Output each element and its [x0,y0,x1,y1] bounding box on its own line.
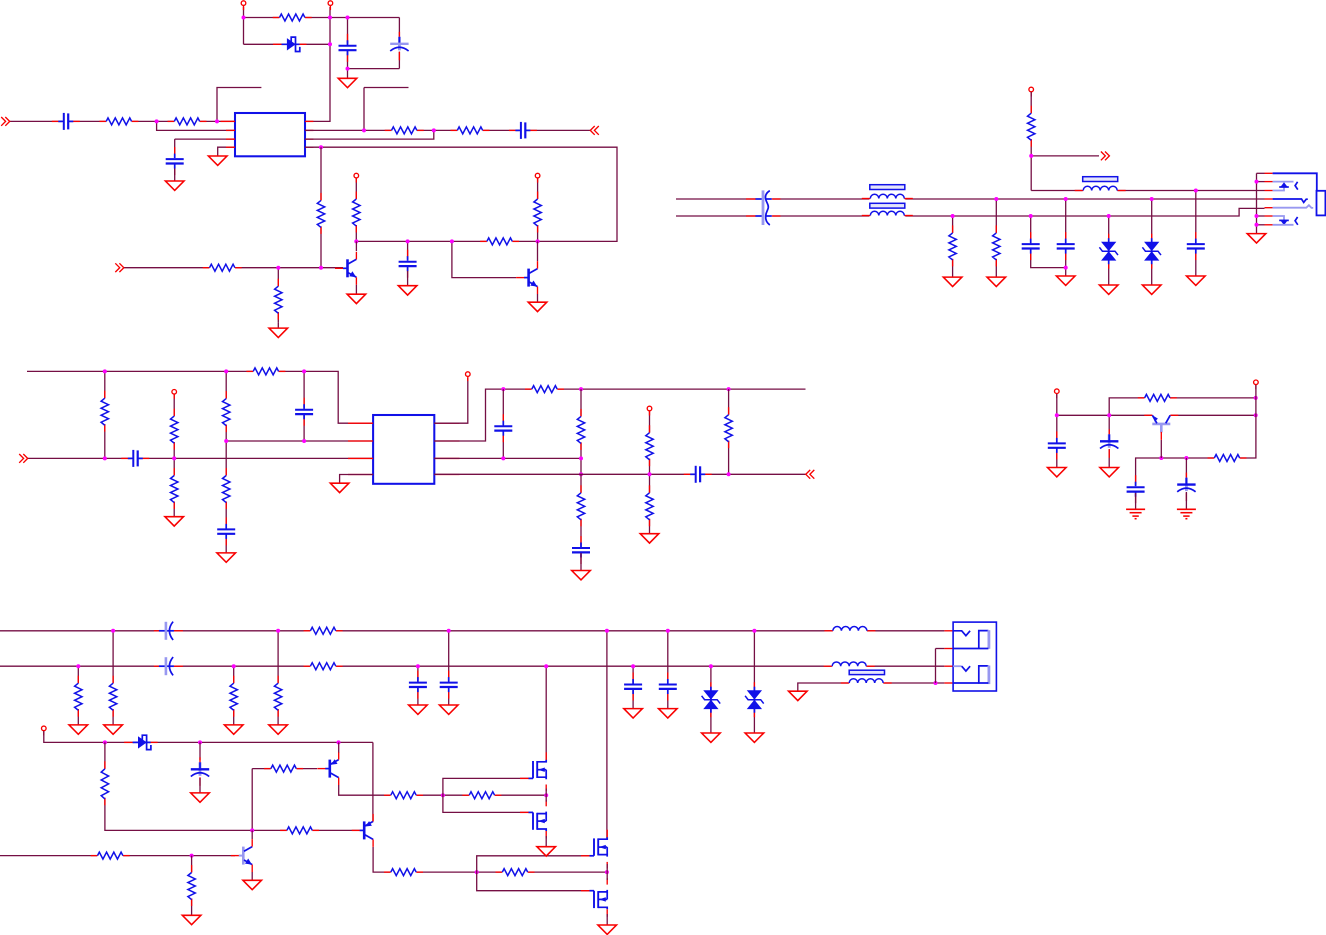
junction [1064,197,1068,201]
wire [364,87,409,89]
terminal P6 [172,390,177,399]
junction [337,740,341,744]
wire (top bus) [0,630,944,632]
wire [157,121,235,130]
junction [346,16,350,20]
wire [935,649,937,684]
wire [373,847,607,872]
resistor R24 [644,425,655,466]
transistor Q3 (PNP) [1144,415,1178,440]
wire [545,666,547,761]
wire (inductor row) [1031,190,1264,192]
wire [1065,199,1067,276]
junction [362,128,366,132]
wire [112,631,114,725]
inductor [862,185,913,200]
junction [1107,214,1111,218]
resistor R26 [723,407,734,448]
capacitor C20 (polarized) [154,621,183,641]
wire [1171,414,1256,416]
wire [649,474,651,533]
junction [1150,197,1154,201]
capacitor C26 (polarized) [190,757,210,786]
wire [355,241,357,251]
resistor R6 [316,193,327,234]
wire [303,371,305,441]
wire [355,178,357,241]
wire [355,285,357,294]
terminal P7 [466,372,471,381]
junction [450,239,454,243]
wire [1257,224,1265,226]
junction [276,629,280,633]
junction [579,456,583,460]
resistor R1 [273,12,312,22]
wire [606,631,608,839]
wire (jack ground chain) [1256,173,1258,233]
junction [319,266,323,270]
wire [407,271,409,286]
wire [252,829,360,831]
wire [1257,181,1265,183]
junction [302,369,306,373]
MOSFET M2 [520,800,546,839]
wire [606,872,608,880]
ground [572,571,591,580]
TVS diode D2 [1099,234,1118,269]
wire [243,7,245,44]
resistor R42 [91,850,130,860]
wire [452,241,516,277]
resistor R16 [99,391,110,432]
resistor R18 [169,468,180,509]
wire [105,742,252,830]
junction [951,214,955,218]
wire [1108,415,1110,467]
wire [305,147,617,241]
junction [406,239,410,243]
wire [606,914,608,925]
ground [659,709,678,718]
wire [1257,215,1265,217]
ground [217,553,236,562]
port OUT2 [1101,152,1110,161]
transistor Q1 [335,252,356,285]
junction [1255,180,1259,184]
TVS diode D5 [745,682,764,717]
terminal P10 [1254,380,1259,389]
ground [702,733,721,742]
wire [1108,216,1110,285]
junction [544,793,548,797]
TVS diode D3 [1142,234,1161,269]
junction [346,67,350,71]
wire [434,457,581,459]
wire [1185,458,1187,477]
ground [624,709,643,718]
wire [277,631,279,725]
inductor [841,678,892,685]
ground [338,69,357,88]
wire [244,43,331,45]
terminal P2 [328,1,333,10]
resistor R5 [451,125,490,135]
MOSFET M4 [581,878,607,917]
wire [252,768,317,770]
resistor R20 [221,468,232,509]
junction [1064,266,1068,270]
wire [251,830,253,839]
terminal P4 [535,173,540,182]
ground [208,156,227,165]
wire [1135,493,1137,509]
junction [752,629,756,633]
diode D1 [273,37,307,51]
transistor Q6 [231,839,252,872]
ground [1056,276,1075,285]
resistor R3 [168,116,207,126]
capacitor C12 [294,398,314,426]
ground [69,725,88,734]
transistor Q2 [516,261,537,294]
junction [76,664,80,668]
ground [347,294,366,303]
resistor R32 [108,676,119,717]
wire [233,666,235,725]
junction [605,629,609,633]
capacitor C22 [408,671,428,699]
diode D6 [124,735,158,749]
junction [631,664,635,668]
inductor [824,661,875,668]
TVS diode D4 [702,682,721,717]
capacitor C17 (polarized) [1099,429,1119,458]
junction [416,664,420,668]
junction [224,439,228,443]
wire (output line) [434,473,805,475]
junction [1194,189,1198,193]
jack J2 body [1273,173,1326,225]
terminal P3 [354,173,359,182]
wire [199,742,201,760]
wire [1056,394,1058,415]
wire [434,378,468,423]
wire [443,778,530,812]
wire [244,17,331,19]
wire [10,120,235,122]
ground [182,915,201,924]
resistor R19 [221,391,232,432]
capacitor C11 [216,517,236,545]
resistor R38 [462,790,501,800]
wire [1109,398,1256,415]
resistor R43 [186,865,197,906]
wire [1031,155,1099,157]
terminal P9 [1055,389,1060,398]
MOSFET M3 [581,830,607,869]
wire [710,666,712,733]
terminal P8 [647,406,652,415]
junction [155,119,159,123]
wire [305,7,330,121]
resistor R29 [304,626,343,636]
wire [537,294,539,302]
junction [536,239,540,243]
capacitor C19 (polarized) [1176,473,1196,502]
wire (top right rail) [503,388,805,390]
wire [537,241,539,261]
wire [728,389,730,474]
inductor L1 [1075,177,1126,192]
capacitor C23 [439,671,459,699]
wire [44,731,373,742]
capacitor C9 [1186,232,1206,260]
junction [328,42,332,46]
transistor Q4 (PNP) [317,752,338,785]
junction [190,854,194,858]
ground [789,691,808,700]
capacitor C3 [52,111,80,131]
ground [191,793,210,802]
wire [1185,492,1187,509]
resistor R21 [525,384,564,394]
wire [251,769,253,831]
inductor [862,203,913,217]
junction [605,870,609,874]
capacitor C24 [623,673,643,701]
junction [103,740,107,744]
junction [319,145,323,149]
resistor R7 [351,192,362,233]
wire [1136,458,1187,486]
resistor R33 [228,676,239,717]
wire [218,147,235,156]
wire [0,855,235,857]
resistor R27 [1138,393,1177,403]
junction [1055,413,1059,417]
inline jack break J1 [746,186,781,229]
capacitor C14 [571,536,591,564]
wire [477,856,590,891]
port OUT1 [590,126,599,135]
wire [217,88,261,122]
ground [537,847,556,856]
junction [1255,223,1259,227]
ground [1247,234,1266,243]
junction [727,472,731,476]
junction [1107,413,1111,417]
wire [448,631,450,705]
junction [1255,214,1259,218]
wire [545,795,547,802]
ground [269,725,288,734]
wire (input line) [28,457,373,459]
junction [111,629,115,633]
wire [580,474,582,547]
ground [1099,285,1118,294]
wire [1057,414,1153,416]
resistor R36 [264,763,303,773]
wire [537,176,539,242]
wire [502,389,504,458]
wire [434,389,503,441]
port IN1 [1,117,10,126]
inductor L2 [824,625,875,632]
resistor R40 [384,867,423,877]
ground [1142,285,1161,294]
wire [1031,216,1066,268]
resistor R25 [644,485,655,526]
junction [934,681,938,685]
ground [165,181,184,190]
wire [606,864,608,872]
ground [745,733,764,742]
wire [936,648,945,650]
terminal P5 [1029,87,1034,96]
junction [215,119,219,123]
junction [544,664,548,668]
wire (bottom bus) [676,208,1265,216]
ground [640,534,659,543]
wire [580,389,582,474]
MOSFET M1 [520,752,546,791]
resistor R10 [203,263,242,273]
junction [1029,154,1033,158]
ground [1187,276,1206,285]
wire [305,129,590,131]
junction [242,16,246,20]
ground [598,925,617,934]
junction [250,828,254,832]
wire [995,199,997,277]
ground [1100,468,1119,477]
junction [475,870,479,874]
resistor R41 [496,867,535,877]
resistor R12 [1026,106,1037,147]
wire [417,666,419,705]
wire [1030,92,1032,191]
ground [330,483,349,492]
wire [348,68,400,70]
ground [165,517,184,526]
terminal P1 [241,1,246,10]
ground [398,286,417,295]
ground [943,277,962,286]
junction [727,387,731,391]
wire [199,778,201,793]
capacitor C13 [493,414,513,442]
wire [632,666,634,708]
wire [1160,440,1162,458]
wire [1186,385,1256,458]
resistor R23 [576,485,587,526]
earth ground [1177,509,1196,518]
junction [232,664,236,668]
wire [330,17,399,19]
resistor R31 [73,676,84,717]
wire [104,371,106,458]
junction [666,629,670,633]
wire [363,88,365,131]
resistor R9 [532,192,543,233]
capacitor C21 (polarized) [154,656,183,676]
capacitor C25 [658,673,678,701]
wire [175,138,235,140]
wire [1056,415,1058,467]
resistor R30 [304,661,343,671]
wire [174,139,176,154]
capacitor C16 [1047,431,1067,459]
junction [432,128,436,132]
wire (bottom bus) [0,665,944,667]
junction [198,740,202,744]
wire [340,475,374,484]
junction [1184,456,1188,460]
wire [339,785,547,795]
junction [1029,214,1033,218]
terminal P11 [42,726,47,735]
wire [407,241,409,257]
junction [994,197,998,201]
wire [338,742,340,752]
ground [269,322,288,337]
wire [77,666,79,725]
wire [251,872,253,880]
wire (shield line) [798,683,945,691]
ground [987,277,1006,286]
junction [648,472,652,476]
wire [952,216,954,277]
ground [104,725,123,734]
resistor R28 [1208,453,1247,463]
capacitor C8 [1056,232,1076,260]
wire [173,458,175,516]
junction [709,664,713,668]
junction [501,387,505,391]
junction [1254,396,1258,400]
junction [172,456,176,460]
wire [305,130,434,139]
junction [302,439,306,443]
wire [1195,191,1197,277]
wire [580,553,582,571]
capacitor C7 [1021,232,1041,260]
junction [1254,413,1258,417]
wire [277,268,279,322]
resistor R17 [169,409,180,450]
wire [173,394,175,458]
wire [398,18,400,69]
capacitor C10 [121,448,149,468]
wire [356,240,537,242]
port IN2 [115,263,124,272]
wire [191,856,193,916]
resistor R22 [576,409,587,450]
junction [354,239,358,243]
junction [447,629,451,633]
connector CON1 [944,630,953,632]
resistor R15 [246,366,285,376]
wire [667,631,669,709]
wire (top bus) [676,198,1265,200]
junction [103,369,107,373]
IC U2 [373,415,434,484]
wire [225,371,227,553]
capacitor C2 (polarized) [389,32,409,61]
ground [409,705,428,714]
resistor R14 [991,225,1002,266]
resistor R37 [384,790,423,800]
